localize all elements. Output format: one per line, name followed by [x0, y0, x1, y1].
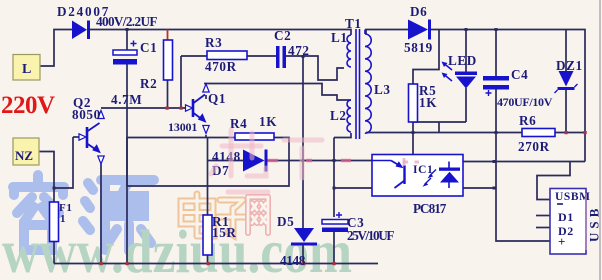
svg-text:L1: L1 [331, 30, 348, 45]
svg-text:1: 1 [60, 213, 66, 225]
svg-text:LED: LED [448, 53, 477, 68]
svg-text:270R: 270R [518, 139, 550, 154]
svg-text:+: + [558, 234, 566, 249]
svg-text:4148: 4148 [280, 253, 306, 268]
svg-text:5819: 5819 [404, 40, 433, 55]
svg-text:R3: R3 [205, 35, 222, 50]
svg-text:472: 472 [288, 43, 310, 58]
svg-text:1K: 1K [259, 114, 277, 129]
svg-text:T1: T1 [345, 16, 362, 31]
svg-text:25V/10UF: 25V/10UF [347, 228, 395, 243]
svg-text:L3: L3 [374, 82, 391, 97]
svg-text:4.7M: 4.7M [111, 92, 142, 107]
svg-text:NZ: NZ [15, 148, 33, 163]
svg-text:8050: 8050 [72, 107, 101, 122]
svg-text:C2: C2 [274, 28, 291, 43]
svg-text:USB: USB [587, 208, 602, 242]
svg-text:R6: R6 [519, 113, 536, 128]
svg-text:DZ1: DZ1 [556, 58, 583, 73]
svg-text:D6: D6 [410, 4, 427, 19]
svg-text:470R: 470R [205, 59, 237, 74]
svg-text:L: L [22, 62, 31, 77]
svg-text:IC1: IC1 [413, 164, 433, 176]
svg-text:4148: 4148 [212, 149, 241, 164]
svg-text:C1: C1 [140, 40, 157, 55]
svg-text:C4: C4 [511, 67, 528, 82]
svg-text:1K: 1K [419, 95, 437, 110]
svg-text:D5: D5 [277, 214, 294, 229]
svg-text:470UF/10V: 470UF/10V [497, 95, 553, 109]
svg-text:D1: D1 [558, 210, 574, 224]
svg-text:13001: 13001 [168, 120, 198, 134]
svg-text:Q1: Q1 [208, 91, 226, 106]
svg-text:15R: 15R [212, 225, 237, 240]
svg-text:PC817: PC817 [413, 201, 447, 216]
svg-text:L2: L2 [330, 108, 347, 123]
svg-text:220V: 220V [1, 92, 55, 119]
svg-text:R2: R2 [140, 76, 157, 91]
svg-text:400V/2.2UF: 400V/2.2UF [96, 14, 158, 29]
